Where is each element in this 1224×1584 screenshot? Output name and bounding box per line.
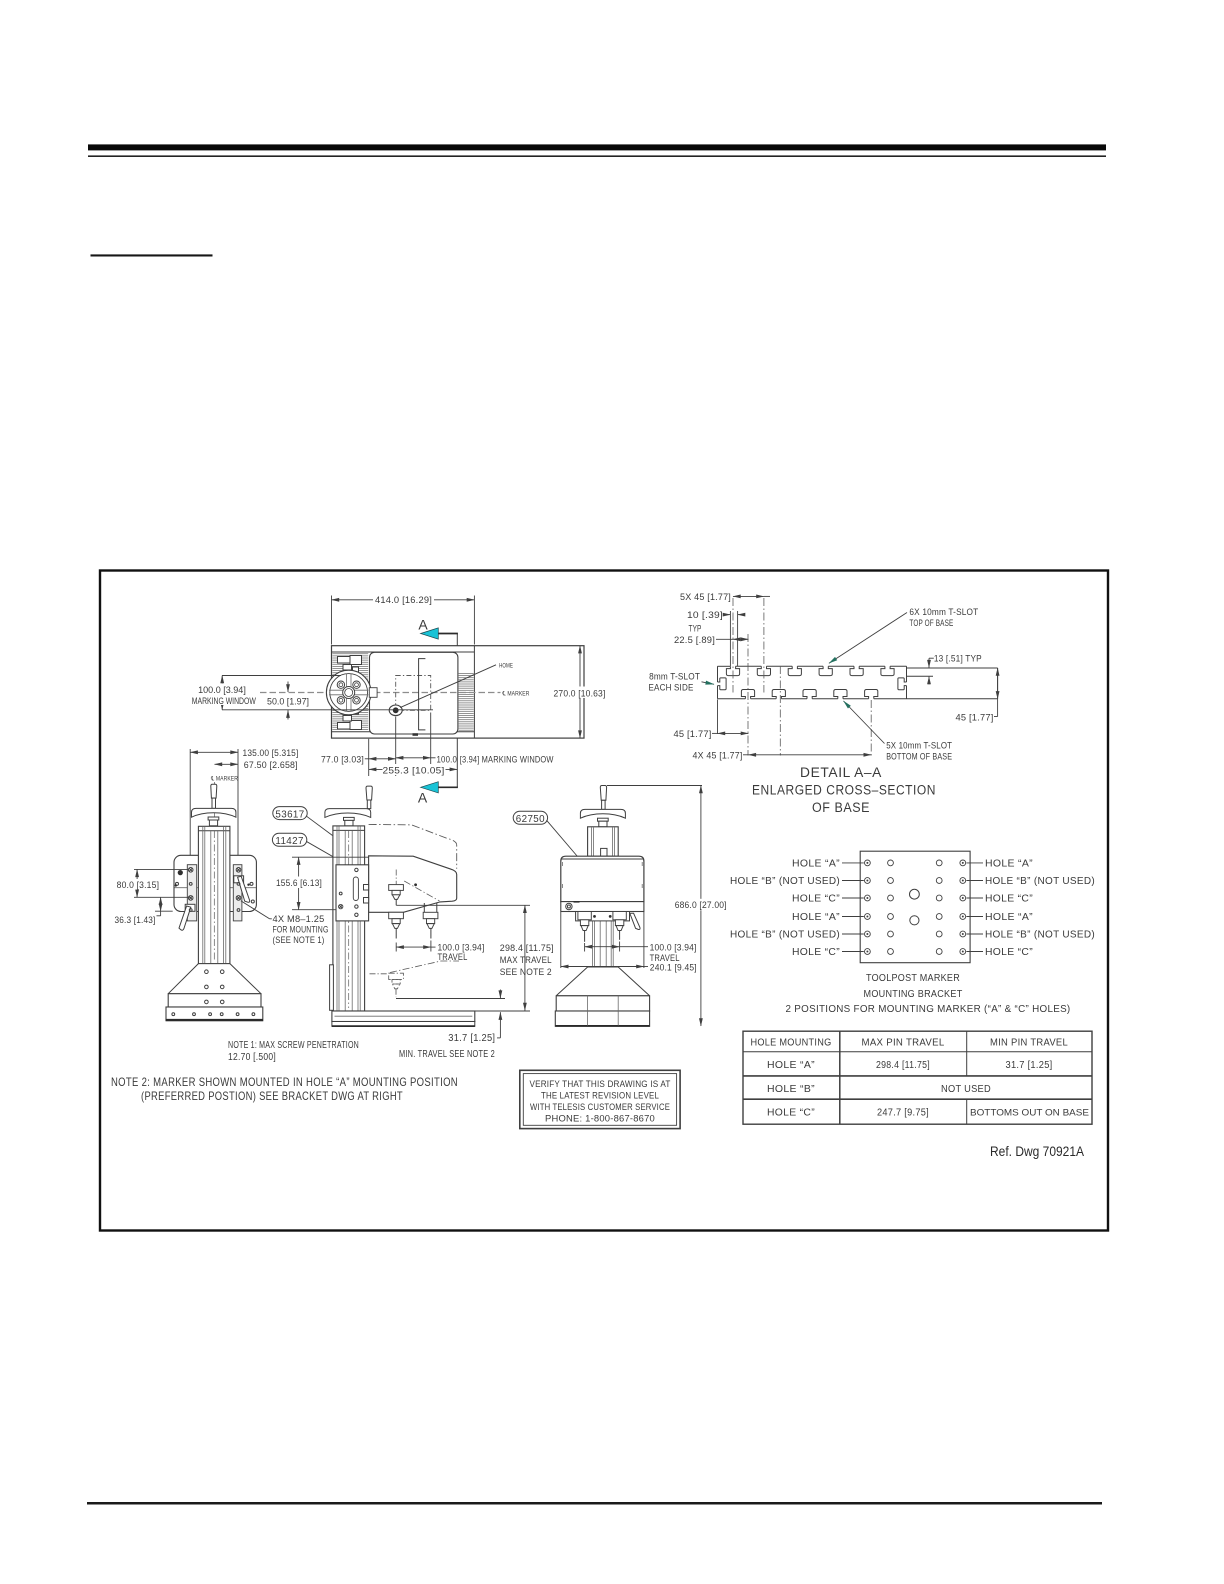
svg-text:100.0 [3.94]: 100.0 [3.94] <box>438 942 485 952</box>
right T-slot rib band <box>459 674 474 731</box>
wheel hub <box>344 817 355 820</box>
svg-text:HOLE “B” (NOT USED): HOLE “B” (NOT USED) <box>730 876 840 887</box>
mounting plate extension <box>907 668 998 699</box>
top rule thick <box>88 144 1106 150</box>
dim 77.0 <box>369 758 396 760</box>
svg-text:12.70 [.500]: 12.70 [.500] <box>228 1052 276 1063</box>
svg-text:4X 45 [1.77]: 4X 45 [1.77] <box>693 751 743 761</box>
svg-text:(PREFERRED POSTION) SEE BRACKE: (PREFERRED POSTION) SEE BRACKET DWG AT R… <box>141 1089 403 1103</box>
pedestal mid block <box>556 996 649 1011</box>
crank knob <box>600 786 606 801</box>
handwheel <box>192 808 236 817</box>
pin left <box>578 912 591 931</box>
svg-text:MARKING WINDOW: MARKING WINDOW <box>192 696 257 706</box>
svg-text:HOLE “A”: HOLE “A” <box>985 858 1033 869</box>
svg-text:NOTE 1: MAX SCREW PENETRATION: NOTE 1: MAX SCREW PENETRATION <box>228 1040 359 1051</box>
svg-text:BOTTOMS OUT ON BASE: BOTTOMS OUT ON BASE <box>970 1108 1089 1118</box>
svg-text:22.5 [.89]: 22.5 [.89] <box>674 635 715 645</box>
svg-text:414.0 [16.29]: 414.0 [16.29] <box>375 595 432 605</box>
inner bottom edge <box>332 731 475 733</box>
dim 22.5 <box>716 638 733 640</box>
base right edge <box>473 646 475 738</box>
svg-text:100.0 [3.94]: 100.0 [3.94] <box>650 943 697 953</box>
pin upper (raised position) <box>395 870 397 885</box>
base <box>332 1011 475 1022</box>
svg-text:HOLE “C”: HOLE “C” <box>792 947 840 958</box>
dim 5X 45 <box>733 595 764 597</box>
svg-text:PHONE: 1-800-867-8670: PHONE: 1-800-867-8670 <box>545 1114 655 1124</box>
svg-text:80.0 [3.15]: 80.0 [3.15] <box>117 880 160 890</box>
svg-text:HOLE “B” (NOT USED): HOLE “B” (NOT USED) <box>730 930 840 941</box>
dim 13 TYP <box>929 657 934 659</box>
svg-text:8mm T-SLOT: 8mm T-SLOT <box>649 672 700 682</box>
pedestal base slab <box>166 1007 263 1021</box>
leader 6X 10mm t-slot <box>829 613 907 664</box>
handwheel <box>580 809 625 818</box>
rotary flange <box>326 670 377 715</box>
home position circle <box>389 705 402 716</box>
pin right <box>613 912 626 931</box>
dim 100.0 travel <box>585 946 620 948</box>
clamp lever left <box>179 906 191 930</box>
lever <box>630 913 640 929</box>
svg-text:6X 10mm T-SLOT: 6X 10mm T-SLOT <box>909 607 978 617</box>
base outer rect <box>332 646 585 738</box>
phantom pin axis <box>369 878 407 880</box>
svg-text:11427: 11427 <box>275 836 304 847</box>
svg-text:MIN PIN TRAVEL: MIN PIN TRAVEL <box>990 1038 1068 1049</box>
svg-text:HOLE “C”: HOLE “C” <box>985 947 1033 958</box>
svg-text:NOTE 2: MARKER SHOWN MOUNTED: NOTE 2: MARKER SHOWN MOUNTED IN HOLE “A”… <box>111 1075 458 1089</box>
carriage plate <box>370 652 458 734</box>
column <box>198 826 230 963</box>
dim 36.3 ext <box>155 910 173 912</box>
dim 298.4 <box>524 905 526 1010</box>
bracket mid seam <box>175 887 257 889</box>
heading underline <box>91 254 213 256</box>
top T-slots (6X) <box>726 666 894 675</box>
dim 100.0 travel stubs <box>395 943 397 952</box>
clamp lever right <box>238 876 250 902</box>
svg-text:100.0: 100.0 <box>437 755 458 765</box>
centerline marker axis <box>222 692 501 694</box>
dim 80.0 ext lines <box>134 868 188 870</box>
svg-text:31.7 [1.25]: 31.7 [1.25] <box>1006 1060 1053 1071</box>
dim 67.50 <box>215 763 239 765</box>
wheel hub <box>598 818 609 821</box>
svg-text:MIN. TRAVEL SEE NOTE 2: MIN. TRAVEL SEE NOTE 2 <box>399 1049 495 1060</box>
svg-text:BOTTOM OF BASE: BOTTOM OF BASE <box>886 752 952 762</box>
balloon 11427 <box>272 833 306 846</box>
bolt bottom-left <box>188 896 193 901</box>
balloon 53617 <box>273 807 307 820</box>
marker body <box>369 856 457 913</box>
home leader <box>400 665 496 708</box>
dim 135.00 ext lines <box>189 749 191 869</box>
left T-slot rib band <box>332 654 368 730</box>
svg-text:HOLE “B”: HOLE “B” <box>767 1084 815 1095</box>
dim 100.0 travel <box>396 946 431 948</box>
svg-text:5X 45 [1.77]: 5X 45 [1.77] <box>680 592 731 602</box>
bracket plate outline <box>860 851 970 963</box>
pin 1 <box>389 912 404 928</box>
svg-text:53617: 53617 <box>275 809 304 820</box>
crank knob <box>366 786 372 800</box>
svg-text:HOME: HOME <box>499 663 513 670</box>
svg-text:50.0 [1.97]: 50.0 [1.97] <box>267 697 309 707</box>
section arrow A bottom <box>421 782 439 793</box>
svg-text:A: A <box>418 790 428 806</box>
svg-text:247.7 [9.75]: 247.7 [9.75] <box>877 1108 929 1119</box>
dim 155.6 <box>298 857 300 910</box>
svg-text:62750: 62750 <box>516 814 545 825</box>
svg-text:67.50 [2.658]: 67.50 [2.658] <box>244 760 298 770</box>
svg-text:HOLE “C”: HOLE “C” <box>792 894 840 905</box>
column lower <box>592 912 613 968</box>
clamp boss right <box>234 876 244 883</box>
components upper-left on base <box>338 656 362 676</box>
hole rows: target holes col1 <box>865 860 966 954</box>
svg-text:298.4 [11.75]: 298.4 [11.75] <box>500 943 554 953</box>
svg-text:HOLE “A”: HOLE “A” <box>792 912 840 923</box>
dim 80.0 <box>136 869 138 897</box>
components lower-left on base <box>338 706 362 730</box>
left thin plate <box>330 965 334 1011</box>
svg-text:10 [.39]: 10 [.39] <box>687 610 723 620</box>
left edge + side T-slot <box>718 666 727 699</box>
housing bottom band <box>561 902 644 912</box>
column <box>333 826 365 1011</box>
bracket small holes <box>176 882 179 885</box>
svg-text:77.0 [3.03]: 77.0 [3.03] <box>321 755 364 765</box>
svg-text:NOT USED: NOT USED <box>941 1084 991 1095</box>
leader 4X M8 <box>241 901 270 919</box>
clamp boss left <box>185 904 195 911</box>
bracket slot <box>353 877 358 901</box>
dim 686.0 <box>700 786 702 1027</box>
bracket under housing <box>576 912 630 921</box>
base profile bottom surface segments <box>718 698 998 700</box>
dim 414.0 ext lines <box>331 596 333 645</box>
dim 135.00 <box>190 751 238 753</box>
svg-text:MOUNTING BRACKET: MOUNTING BRACKET <box>864 989 963 1000</box>
corner ticks <box>562 862 564 866</box>
handwheel <box>325 809 371 818</box>
column top section <box>588 827 619 856</box>
svg-text:100.0 [3.94]: 100.0 [3.94] <box>198 685 246 695</box>
wheel hub <box>208 817 219 820</box>
marker body bracket outline <box>419 659 426 730</box>
svg-text:686.0 [27.00]: 686.0 [27.00] <box>675 900 727 910</box>
top rule thin <box>88 155 1106 157</box>
svg-text:13 [.51] TYP: 13 [.51] TYP <box>934 654 982 664</box>
svg-text:255.3 [10.05]: 255.3 [10.05] <box>383 766 445 776</box>
dim 155.6 ext lines <box>292 856 369 858</box>
pedestal flare <box>556 967 649 996</box>
pedestal flare <box>168 964 261 994</box>
dim 45 right <box>997 668 999 699</box>
svg-text:36.3 [1.43]: 36.3 [1.43] <box>115 915 156 925</box>
dim 240.1 <box>561 966 644 968</box>
svg-text:TRAVEL: TRAVEL <box>438 952 468 962</box>
svg-text:Ref. Dwg 70921A: Ref. Dwg 70921A <box>990 1144 1084 1159</box>
dim 10 TYP <box>724 614 731 616</box>
svg-text:OF BASE: OF BASE <box>812 800 870 815</box>
base top ext <box>475 1010 530 1012</box>
svg-text:MAX PIN TRAVEL: MAX PIN TRAVEL <box>862 1038 945 1049</box>
dim 686.0 ext top <box>607 785 702 787</box>
two larger center holes <box>910 889 920 899</box>
dim 50.0 <box>287 682 289 693</box>
svg-text:TOP OF BASE: TOP OF BASE <box>909 618 953 628</box>
balloon 62750 <box>513 811 547 824</box>
svg-text:HOLE MOUNTING: HOLE MOUNTING <box>751 1038 832 1049</box>
marking window (hidden) <box>396 676 431 711</box>
left leaders <box>842 863 983 952</box>
dim 255.3 <box>369 768 458 770</box>
bracket bolt <box>339 904 343 908</box>
pin tip ext line <box>396 998 505 1000</box>
svg-text:WITH TELESIS CUSTOMER SERVICE: WITH TELESIS CUSTOMER SERVICE <box>530 1102 670 1112</box>
dim 31.7 <box>499 990 501 999</box>
svg-text:4X M8–1.25: 4X M8–1.25 <box>273 914 325 924</box>
phantom pin lower <box>370 973 404 997</box>
svg-text:2 POSITIONS FOR MOUNTING MARKE: 2 POSITIONS FOR MOUNTING MARKER (“A” & “… <box>786 1004 1071 1015</box>
bracket plate mid <box>336 865 369 921</box>
svg-text:270.0 [10.63]: 270.0 [10.63] <box>554 688 606 698</box>
svg-text:HOLE “B” (NOT USED): HOLE “B” (NOT USED) <box>985 876 1095 887</box>
lower pin leader <box>390 961 459 973</box>
crank knob <box>211 784 217 798</box>
dim 100.0 travel stubs <box>584 943 586 952</box>
svg-text:HOLE “B” (NOT USED): HOLE “B” (NOT USED) <box>985 930 1095 941</box>
inner top edge <box>332 651 475 653</box>
svg-text:MAX TRAVEL: MAX TRAVEL <box>500 955 552 965</box>
ext lines 240.1 <box>560 912 562 968</box>
svg-text:5X 10mm T-SLOT: 5X 10mm T-SLOT <box>886 741 952 751</box>
svg-text:298.4 [11.75]: 298.4 [11.75] <box>876 1060 930 1071</box>
svg-text:155.6 [6.13]: 155.6 [6.13] <box>276 878 322 888</box>
drawing frame <box>100 571 1108 1231</box>
svg-text:EACH SIDE: EACH SIDE <box>649 683 694 693</box>
connector tick <box>413 733 419 736</box>
svg-text:DETAIL A–A: DETAIL A–A <box>800 765 882 780</box>
svg-text:TOOLPOST MARKER: TOOLPOST MARKER <box>866 973 960 984</box>
dim left 100.0 ext lines <box>222 675 341 677</box>
right rail <box>233 865 242 921</box>
dim 298.4 ext top <box>396 904 530 906</box>
crank stem <box>212 798 216 808</box>
dim 414.0 <box>332 599 475 601</box>
svg-text:HOLE “A”: HOLE “A” <box>767 1060 815 1071</box>
slot centerlines <box>733 598 871 756</box>
section line top <box>456 634 458 646</box>
dim bottom 100.0 ext <box>430 713 432 765</box>
svg-text:SEE NOTE 2: SEE NOTE 2 <box>500 967 552 977</box>
bottom T-slots (5X) <box>741 690 877 699</box>
svg-text:45 [1.77]: 45 [1.77] <box>674 729 712 739</box>
svg-text:HOLE “C”: HOLE “C” <box>985 894 1033 905</box>
section arrow A top <box>421 628 439 639</box>
leader 8mm t-slot <box>702 682 715 685</box>
svg-text:ENLARGED CROSS–SECTION: ENLARGED CROSS–SECTION <box>752 783 936 798</box>
mounting bracket plate <box>174 855 256 911</box>
svg-text:(SEE NOTE 1): (SEE NOTE 1) <box>273 935 325 945</box>
center dots of target holes <box>866 862 963 953</box>
svg-text:240.1 [9.45]: 240.1 [9.45] <box>650 962 697 972</box>
pedestal mid block <box>168 994 261 1007</box>
svg-text:℄ MARKER: ℄ MARKER <box>210 775 238 782</box>
svg-text:HOLE “C”: HOLE “C” <box>767 1108 815 1119</box>
svg-text:HOLE “A”: HOLE “A” <box>792 858 840 869</box>
dim 4X 45 <box>748 754 871 756</box>
dim 270.0 <box>579 646 581 738</box>
svg-text:45 [1.77]: 45 [1.77] <box>956 712 994 722</box>
section line bottom <box>456 738 458 787</box>
pin 2 <box>423 903 425 912</box>
phantom-to-pin diagonal <box>404 881 439 901</box>
svg-text:[3.94] MARKING WINDOW: [3.94] MARKING WINDOW <box>460 755 554 765</box>
dim bottom 100.0 <box>396 757 431 759</box>
svg-text:HOLE “A”: HOLE “A” <box>985 912 1033 923</box>
pilot dot <box>178 870 183 875</box>
bottom rule <box>87 1502 1102 1505</box>
left rail <box>187 865 196 921</box>
svg-text:TYP: TYP <box>689 624 702 634</box>
pedestal base slab <box>555 1011 649 1026</box>
marker body phantom raised <box>369 824 457 868</box>
bolt top-right <box>236 868 241 873</box>
svg-text:VERIFY THAT THIS DRAWING IS AT: VERIFY THAT THIS DRAWING IS AT <box>530 1079 671 1089</box>
svg-text:A: A <box>418 617 428 633</box>
leader 5X 10mm t-slot <box>844 701 885 744</box>
housing <box>561 856 644 901</box>
svg-text:135.00 [5.315]: 135.00 [5.315] <box>243 748 299 758</box>
svg-text:FOR MOUNTING: FOR MOUNTING <box>273 925 329 935</box>
dim 77.0 ext lines <box>368 739 370 776</box>
svg-text:31.7 [1.25]: 31.7 [1.25] <box>448 1033 495 1044</box>
bolt bottom-right <box>236 896 241 901</box>
bolt top-left <box>188 868 240 901</box>
svg-text:℄ MARKER: ℄ MARKER <box>502 690 530 697</box>
body dot <box>414 883 417 886</box>
dim left 100.0 <box>221 676 223 710</box>
dim 36.3 <box>160 897 162 911</box>
dim 45 left <box>717 700 719 735</box>
base profile top surface segments <box>718 665 907 667</box>
svg-text:THE LATEST REVISION LEVEL: THE LATEST REVISION LEVEL <box>541 1091 659 1101</box>
right edge + side T-slot <box>898 666 907 699</box>
pedestal holes <box>172 970 255 1016</box>
